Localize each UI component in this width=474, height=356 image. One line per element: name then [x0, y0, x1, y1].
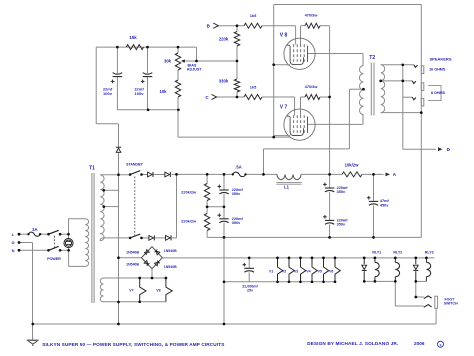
svg-text:220k: 220k [219, 37, 229, 42]
svg-text:c: c [440, 343, 442, 347]
svg-text:DESIGN BY MICHAEL J. SOLDANO J: DESIGN BY MICHAEL J. SOLDANO JR. [307, 341, 398, 346]
svg-text:V 8: V 8 [280, 33, 288, 39]
svg-text:330k: 330k [219, 79, 229, 84]
svg-text:1N540B: 1N540B [126, 251, 139, 255]
svg-text:L1: L1 [284, 185, 290, 190]
svg-text:350v: 350v [232, 192, 241, 196]
svg-text:V4: V4 [306, 269, 310, 273]
svg-text:RLY3: RLY3 [425, 250, 434, 254]
svg-text:V6: V6 [329, 269, 333, 273]
svg-text:450v: 450v [380, 203, 389, 207]
svg-text:10k/2w: 10k/2w [345, 163, 359, 168]
svg-text:1N540B: 1N540B [164, 249, 177, 253]
svg-text:V 7: V 7 [280, 105, 288, 111]
svg-text:T1: T1 [89, 165, 95, 171]
svg-text:15k: 15k [129, 35, 137, 40]
svg-text:V5: V5 [318, 269, 322, 273]
svg-text:220k/2w: 220k/2w [181, 219, 197, 224]
svg-text:350v: 350v [337, 190, 346, 194]
svg-text:SPEAKERS: SPEAKERS [429, 57, 451, 62]
svg-text:10k: 10k [160, 89, 168, 94]
svg-text:350v: 350v [232, 221, 241, 225]
svg-text:220k/2w: 220k/2w [181, 189, 197, 194]
svg-text:350v: 350v [337, 223, 346, 227]
svg-text:100v: 100v [103, 91, 113, 96]
svg-text:470/3w: 470/3w [305, 13, 319, 18]
svg-text:T2: T2 [369, 55, 375, 61]
svg-text:RLY1: RLY1 [372, 250, 381, 254]
svg-text:1k5: 1k5 [250, 84, 257, 89]
svg-text:8 OHMS: 8 OHMS [431, 91, 446, 95]
svg-text:3A: 3A [32, 227, 37, 232]
svg-text:POWER: POWER [47, 257, 61, 261]
svg-text:ADJUST: ADJUST [187, 68, 202, 72]
svg-text:1N540B: 1N540B [164, 265, 177, 269]
svg-text:V8: V8 [156, 289, 160, 293]
svg-text:N: N [12, 248, 15, 253]
svg-text:V3: V3 [294, 269, 298, 273]
svg-text:V1: V1 [269, 269, 273, 273]
svg-text:30k: 30k [164, 59, 172, 64]
svg-text:SILKYN SUPER 50 — POWER SUPPLY: SILKYN SUPER 50 — POWER SUPPLY, SWITCHIN… [42, 342, 224, 347]
svg-text:SWITCH: SWITCH [444, 302, 458, 306]
svg-text:V7: V7 [129, 289, 133, 293]
svg-text:100v: 100v [135, 91, 145, 96]
svg-text:470/3w: 470/3w [305, 84, 319, 89]
svg-text:G: G [12, 240, 15, 245]
svg-text:1N540B: 1N540B [126, 262, 139, 266]
svg-text:2006: 2006 [414, 341, 425, 346]
svg-text:25v: 25v [247, 288, 253, 292]
svg-text:.5A: .5A [235, 165, 242, 170]
svg-text:V2: V2 [282, 269, 286, 273]
svg-text:STANDBY: STANDBY [126, 163, 143, 167]
svg-text:16 OHMS: 16 OHMS [429, 67, 446, 71]
svg-text:RLY2: RLY2 [393, 250, 402, 254]
svg-text:1k5: 1k5 [250, 13, 257, 18]
